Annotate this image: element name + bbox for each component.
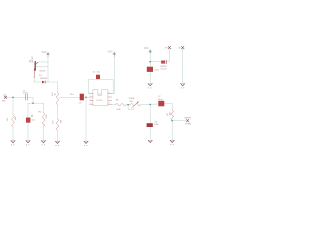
wire tap to X2 bbox=[172, 120, 186, 122]
ground GND7 bbox=[170, 140, 175, 145]
ground GND5 bbox=[84, 141, 89, 146]
svg-text:10R: 10R bbox=[116, 109, 120, 111]
wire C1 to corner bbox=[28, 97, 33, 103]
wire R4 to ground bbox=[57, 130, 59, 141]
svg-text:5: 5 bbox=[109, 103, 110, 105]
junction node rail bbox=[149, 61, 151, 63]
op-amp IC1 body (LM386 DIP outline) bbox=[93, 90, 108, 106]
potentiometer R6 bbox=[130, 103, 140, 106]
ground GND3 bbox=[41, 141, 46, 146]
wire down to R2 bbox=[43, 103, 45, 113]
supply VCC arrow (rail) bbox=[148, 50, 152, 54]
junction node bias bbox=[32, 102, 34, 104]
capacitor C6 (polarized) bbox=[147, 123, 153, 127]
capacitor C3 (polarized, series) bbox=[80, 94, 84, 101]
wire base feed bbox=[36, 66, 48, 68]
wire gain loop right bbox=[100, 80, 113, 94]
wire C5 to ground bbox=[149, 72, 151, 83]
wire gain loop left bbox=[88, 80, 95, 94]
svg-text:4: 4 bbox=[90, 103, 91, 105]
wire emitter to diode bbox=[34, 81, 41, 83]
resistor R7 bbox=[171, 110, 174, 120]
diode D2 (supply, polarized blob) bbox=[161, 60, 166, 64]
wire R5 to R6 bbox=[126, 104, 130, 106]
svg-text:1N4148: 1N4148 bbox=[40, 78, 48, 80]
supply VCC arrow (Q1 collector) bbox=[46, 52, 50, 57]
wire R2 to ground bbox=[43, 126, 45, 140]
svg-text:TUNE: TUNE bbox=[128, 98, 134, 100]
junction node C6 top bbox=[149, 104, 151, 106]
wire C6 branch down bbox=[149, 104, 151, 123]
transistor Q1 bbox=[34, 62, 38, 71]
pin 7 stub bbox=[108, 100, 112, 102]
pin 3 stub bbox=[89, 96, 93, 98]
ground GND1 bbox=[11, 141, 16, 146]
pin 4 stub bbox=[89, 100, 93, 102]
pin 1 stub bbox=[89, 103, 93, 105]
wire VCC rail down bbox=[149, 53, 151, 66]
svg-text:VCC: VCC bbox=[42, 52, 47, 54]
capacitor C2 (polarized) bbox=[26, 118, 30, 123]
wire R6 wiper bracket bbox=[128, 105, 134, 110]
wire rail to D2 bbox=[150, 61, 161, 63]
wire junction down to R1 bbox=[12, 97, 14, 115]
wire R3 to R4 bbox=[57, 104, 59, 118]
svg-text:BC547: BC547 bbox=[32, 55, 34, 62]
svg-text:SPKR1: SPKR1 bbox=[184, 117, 192, 119]
pin 8 stub bbox=[108, 96, 112, 98]
connector X3 (+9V pad) bbox=[168, 46, 171, 49]
wire R6 to C5 bbox=[141, 103, 158, 106]
svg-text:100n: 100n bbox=[23, 93, 29, 95]
ground GND2 bbox=[26, 141, 31, 146]
junction node R6 left bbox=[127, 104, 129, 106]
wire R3 tap to C3 bbox=[59, 96, 80, 98]
svg-text:10u/25: 10u/25 bbox=[160, 69, 167, 71]
wire bias rail bbox=[28, 102, 44, 104]
ground GND9 bbox=[180, 84, 185, 89]
svg-text:LM386: LM386 bbox=[96, 100, 103, 102]
junction node at R1 top bbox=[12, 97, 14, 99]
potentiometer R6 wiper arrow bbox=[132, 102, 139, 108]
svg-text:3: 3 bbox=[90, 99, 91, 101]
wire X4 to ground bbox=[182, 49, 184, 83]
wire emitter down bbox=[33, 69, 35, 78]
capacitor C4 (gain, polarized) bbox=[96, 75, 100, 80]
ground GND4 bbox=[55, 141, 60, 146]
wire R1 to ground bbox=[12, 127, 14, 141]
wire C3 to IC pin bbox=[84, 96, 89, 98]
resistor R4 bbox=[56, 119, 59, 131]
connector X1 (MIC input pad) bbox=[4, 96, 7, 99]
wire collector feed bbox=[38, 61, 48, 63]
connector X4 (0V pad) bbox=[181, 46, 184, 49]
resistor R3 bbox=[56, 93, 59, 105]
wire VCC down bbox=[47, 57, 49, 82]
wire D2 to pad bbox=[166, 49, 169, 62]
supply VCC arrow (IC) bbox=[113, 52, 117, 57]
diode D1 bbox=[42, 81, 45, 84]
resistor R2 bbox=[42, 113, 45, 126]
wire diode to corner bbox=[46, 82, 58, 93]
capacitor C5 (decoupling, polarized) bbox=[147, 67, 153, 72]
resistor R5 bbox=[116, 103, 126, 106]
pin 5 stub bbox=[108, 103, 112, 105]
svg-text:2: 2 bbox=[90, 96, 91, 98]
svg-text:8OHM: 8OHM bbox=[185, 124, 191, 126]
junction node pin3 bbox=[85, 97, 87, 99]
capacitor C7 (output, polarized series) bbox=[158, 101, 164, 107]
ground GND8 bbox=[148, 84, 153, 89]
svg-text:VCC: VCC bbox=[144, 48, 149, 50]
wire C6 to ground bbox=[149, 127, 151, 140]
svg-text:BC547: BC547 bbox=[40, 70, 46, 72]
capacitor C1 bbox=[25, 94, 27, 100]
ground GND6 bbox=[148, 140, 153, 142]
wire pin2 ground branch bbox=[85, 97, 87, 141]
wire C7 to corner bbox=[165, 103, 173, 110]
wire down to C2 bbox=[27, 103, 29, 117]
svg-text:VCC: VCC bbox=[108, 52, 113, 54]
wire pin5 to R5 bbox=[112, 103, 116, 105]
wire C2 to ground bbox=[27, 123, 29, 140]
wire VCC to pin 6 bbox=[112, 57, 115, 94]
connector X2 (output) bbox=[186, 119, 189, 122]
wire R7 to ground bbox=[171, 121, 173, 141]
junction node ANT tap bbox=[171, 120, 173, 122]
pin 2 stub bbox=[89, 92, 93, 94]
resistor R1 bbox=[12, 115, 15, 127]
svg-text:6: 6 bbox=[109, 92, 110, 94]
pin 6 stub bbox=[108, 92, 112, 94]
wire MIC to C1 bbox=[7, 96, 25, 98]
svg-text:MIC: MIC bbox=[2, 101, 6, 103]
